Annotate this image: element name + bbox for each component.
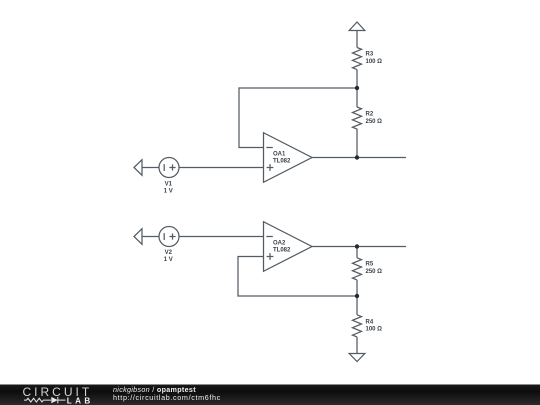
svg-text:V2: V2 [165,250,173,256]
svg-text:R4: R4 [366,319,374,325]
svg-text:100 Ω: 100 Ω [366,59,383,65]
svg-text:OA2: OA2 [273,240,286,246]
svg-text:250 Ω: 250 Ω [366,119,383,125]
svg-text:LAB: LAB [67,396,94,405]
svg-text:TL082: TL082 [273,247,291,253]
svg-text:V1: V1 [165,181,173,187]
svg-text:OA1: OA1 [273,151,286,157]
svg-text:1 V: 1 V [164,257,173,263]
svg-text:TL082: TL082 [273,159,291,165]
svg-text:R2: R2 [366,112,374,118]
svg-text:R3: R3 [366,52,374,58]
svg-text:1 V: 1 V [164,188,173,194]
svg-text:R5: R5 [366,262,374,268]
svg-text:250 Ω: 250 Ω [366,269,383,275]
svg-text:100 Ω: 100 Ω [366,327,383,333]
svg-text:http://circuitlab.com/ctm6fhc: http://circuitlab.com/ctm6fhc [113,393,221,402]
